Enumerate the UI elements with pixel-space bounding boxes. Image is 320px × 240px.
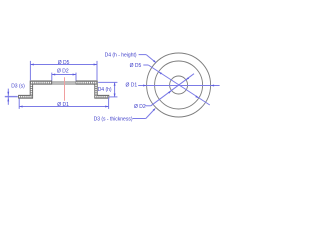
svg-text:Ø D2: Ø D2 — [134, 104, 146, 110]
circle D5 — [155, 61, 203, 109]
svg-text:Ø D5: Ø D5 — [130, 63, 142, 69]
inner circle D2 — [170, 76, 188, 94]
dimension D2 (left view) dimension line with arrows — [52, 74, 76, 76]
visible hole edges in middle of section — [52, 82, 76, 84]
svg-text:Ø D2: Ø D2 — [57, 69, 69, 75]
dimension D4 (left view) vertical dimension line with arrows — [114, 82, 116, 97]
dimension D1 (left view) dimension line with arrows — [19, 106, 108, 108]
svg-text:Ø D5: Ø D5 — [58, 60, 70, 66]
svg-text:D4 (h - height): D4 (h - height) — [105, 53, 137, 59]
dimension D2 (left view) extension lines — [52, 73, 76, 81]
svg-text:Ø D1: Ø D1 — [57, 102, 69, 108]
dimension D4 height (left view) extension lines — [98, 82, 117, 97]
svg-text:D4 (h): D4 (h) — [98, 87, 112, 93]
section cut piece left (hatched) — [19, 81, 52, 98]
svg-text:D3 (s - thickness): D3 (s - thickness) — [94, 117, 133, 123]
svg-text:D3 (s): D3 (s) — [11, 83, 25, 89]
dimension D5 diagonal line (right view) — [143, 65, 210, 105]
leader D3 thickness (right view) — [133, 108, 156, 119]
leader D4 height (right view) — [139, 55, 157, 63]
section cut piece right (hatched) — [76, 81, 109, 98]
dimension D2 diagonal line (right view) — [145, 74, 194, 106]
dimension D3 thickness (left view) extension line — [5, 96, 18, 98]
dimension D1 horizontal line (right view) — [138, 85, 219, 87]
dimension D3 (left view) dimension line with outside arrows — [7, 89, 9, 105]
dimension D1 (left view) extension lines — [19, 98, 108, 109]
red centerline — [64, 77, 66, 101]
outer circle D1 — [147, 53, 211, 117]
dimension D5 (left view) dimension line with arrows — [30, 64, 97, 66]
dimension D5 (left view) extension lines — [30, 61, 97, 80]
svg-text:Ø D1: Ø D1 — [126, 83, 138, 89]
